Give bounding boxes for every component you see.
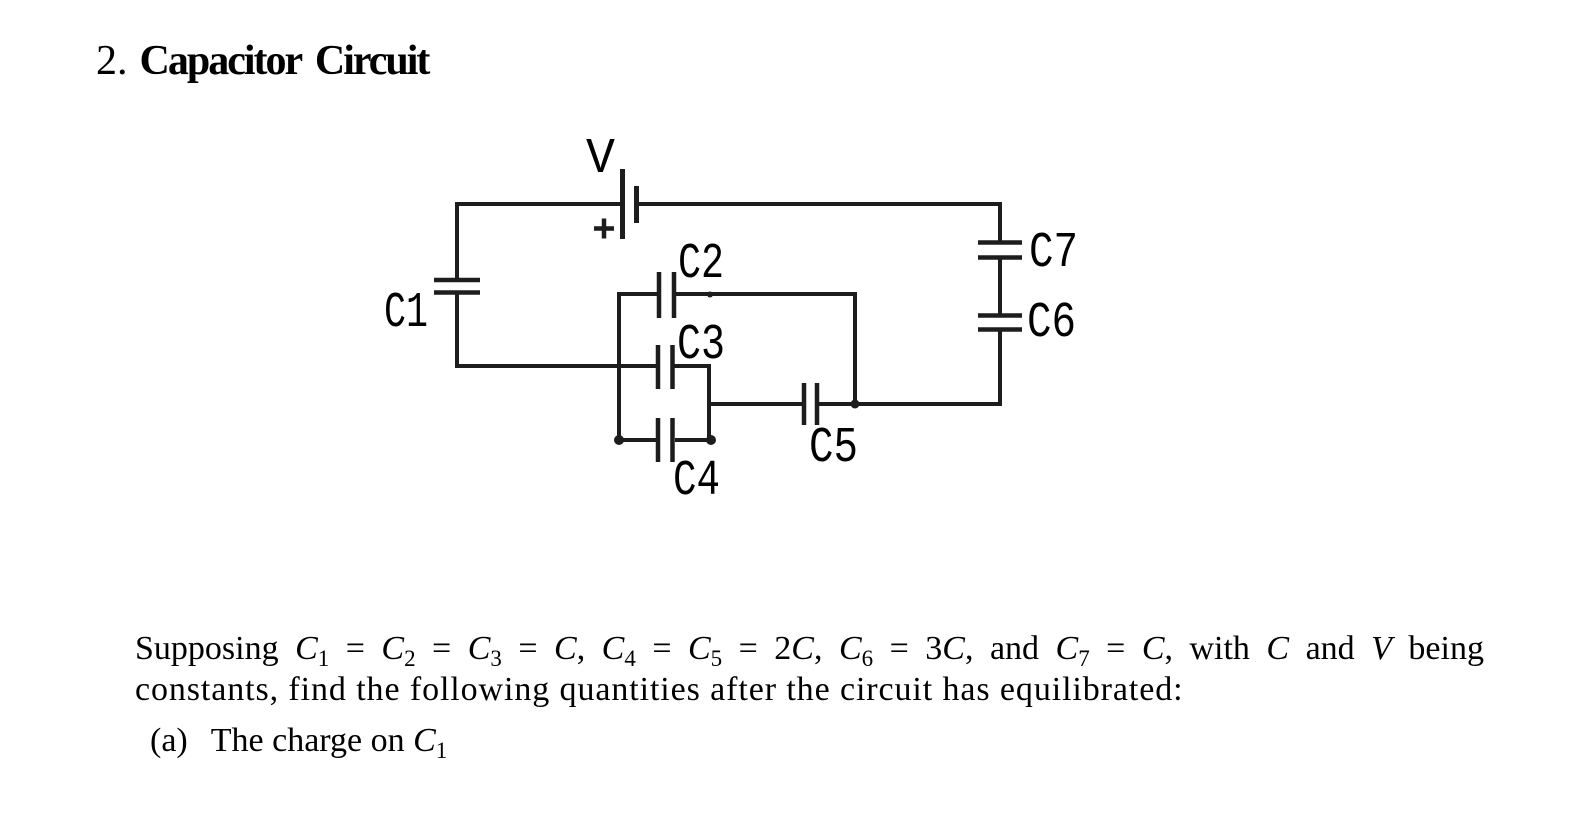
svg-text:C2: C2 [678,236,724,293]
svg-text:V: V [586,131,615,188]
svg-text:C3: C3 [677,317,725,374]
svg-text:C7: C7 [1029,225,1078,282]
svg-text:C5: C5 [809,420,858,477]
svg-text:C1: C1 [384,285,428,342]
svg-text:C6: C6 [1027,295,1076,352]
svg-text:C4: C4 [673,453,720,510]
